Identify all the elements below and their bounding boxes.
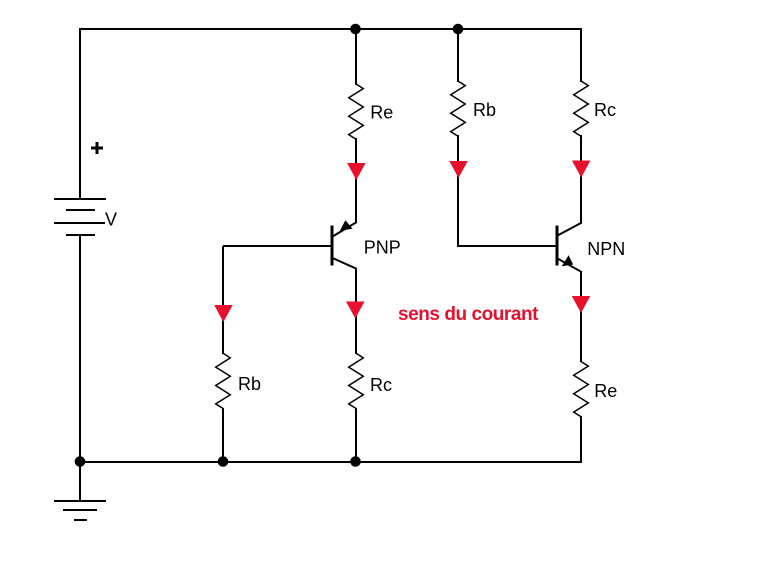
wire Rb right down to corner (457, 136, 459, 245)
wire resistor Re to PNP emitter corner (355, 139, 357, 222)
wire left rail upper (top rail to battery +) (79, 30, 81, 198)
node junction dot top right (Rb branch) (453, 24, 464, 35)
battery V plate 4 (short, -) (67, 234, 94, 236)
svg-text:sens du courant: sens du courant (398, 304, 539, 325)
NPN collector diagonal (558, 223, 582, 236)
battery + sign horizontal stroke (91, 147, 103, 150)
current arrow below NPN emitter (572, 296, 591, 313)
wire Re bottom-right to bottom rail (580, 417, 582, 461)
resistor Rc (bottom-mid zigzag) (349, 353, 364, 408)
node junction dot bottom rail at Rb (218, 456, 229, 467)
wire bottom horizontal rail (80, 461, 581, 463)
svg-text:NPN: NPN (587, 239, 625, 259)
ground bar 1 (55, 500, 105, 502)
battery V plate 1 (long, +) (55, 198, 105, 200)
NPN emitter arrowhead (562, 255, 573, 266)
wire top rail to resistor Re (left) (355, 30, 357, 84)
node junction dot bottom rail at ground (75, 456, 86, 467)
wire Rb bottom-left to bottom rail (222, 409, 224, 461)
resistor Re (left, zigzag) (349, 84, 364, 139)
current arrow below Rb right (449, 161, 468, 178)
current arrow below PNP collector (Rc branch) (346, 302, 365, 319)
PNP base wire (224, 245, 331, 247)
wire left rail lower (battery - to bottom rail) (79, 236, 81, 461)
PNP emitter arrowhead (340, 220, 353, 231)
wire base branch down (to Rb bottom-left) (222, 247, 224, 353)
resistor Rc (right zigzag) (574, 81, 589, 136)
current arrow below PNP base (Rb branch) (214, 305, 233, 322)
svg-text:PNP: PNP (364, 238, 401, 258)
wire top rail corner to resistor Rc (right) (580, 30, 582, 81)
svg-text:V: V (105, 210, 117, 230)
battery V plate 2 (short) (67, 209, 94, 211)
resistor Rb (right zigzag) (451, 81, 466, 136)
svg-text:Rc: Rc (594, 100, 616, 120)
resistor Rb (bottom-left zigzag) (216, 353, 231, 408)
svg-text:Rc: Rc (370, 375, 392, 395)
ground bar 3 (75, 519, 86, 521)
wire NPN base horizontal (458, 245, 556, 247)
ground bar 2 (64, 509, 96, 511)
svg-text:Re: Re (370, 103, 393, 123)
svg-text:Rb: Rb (238, 374, 261, 394)
svg-text:Re: Re (594, 381, 617, 401)
wire Rc bottom-mid to bottom rail (355, 409, 357, 461)
svg-text:Rb: Rb (473, 100, 496, 120)
PNP collector diagonal (333, 258, 357, 269)
wire Rc right down to NPN collector corner (580, 136, 582, 222)
transistor Q2 NPN base bar (556, 227, 559, 264)
wire top rail to resistor Rb (right) (457, 30, 459, 81)
NPN emitter diagonal (558, 259, 582, 272)
wire top horizontal rail (80, 28, 581, 30)
battery + sign vertical stroke (96, 142, 99, 154)
transistor Q1 PNP base bar (331, 227, 334, 264)
node junction dot bottom rail at Rc (350, 456, 361, 467)
current arrow below Rc right (572, 161, 591, 178)
node junction dot top left (Re branch) (350, 24, 361, 35)
PNP emitter diagonal (333, 223, 357, 237)
wire NPN emitter down to resistor Re (right) (580, 272, 582, 361)
resistor Re (bottom-right zigzag) (574, 362, 589, 417)
ground stem wire (79, 463, 81, 500)
current arrow below Re left (347, 163, 366, 180)
wire PNP collector down (to Rc bottom-mid) (355, 269, 357, 353)
battery V plate 3 (long) (55, 222, 104, 224)
